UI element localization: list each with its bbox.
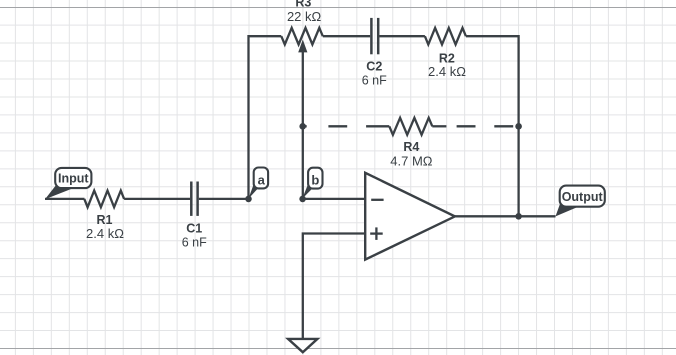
- ground: [288, 339, 317, 352]
- svg-text:C2: C2: [366, 60, 382, 74]
- wire: op-amp non-inverting input to ground column: [303, 234, 365, 339]
- node a callout: [248, 185, 257, 199]
- svg-text:a: a: [258, 172, 266, 187]
- wire: dashed segment R4 to right column: [432, 125, 446, 127]
- capacitor C2: [370, 18, 373, 54]
- resistor R4: [389, 118, 432, 135]
- potentiometer R3 zigzag: [281, 28, 323, 45]
- svg-text:4.7 MΩ: 4.7 MΩ: [390, 153, 433, 168]
- wire: R3 to C2: [323, 35, 370, 37]
- resistor R2: [425, 28, 466, 45]
- svg-text:6 nF: 6 nF: [182, 236, 207, 250]
- wire: op-amp output to Output label: [455, 215, 556, 217]
- svg-text:R1: R1: [97, 213, 113, 227]
- wire: C2 to R2: [379, 35, 425, 37]
- Input label callout: [45, 185, 73, 200]
- junction: output wire and right column: [515, 213, 522, 220]
- junction: right column and R4 dashed wire: [515, 123, 522, 130]
- wire: R2 to top-right corner down to output row: [466, 36, 519, 216]
- node b junction: [299, 196, 306, 203]
- junction: wiper line and R4 dashed wire: [299, 123, 306, 130]
- op-amp triangle: [365, 173, 455, 260]
- resistor R1: [84, 191, 124, 208]
- wire: dashed segment node to R4 (left): [303, 125, 307, 127]
- wire: wiper down to node b: [302, 50, 304, 199]
- wire: input to R1: [45, 198, 85, 200]
- node b callout: [302, 185, 312, 199]
- wire: R1 to C1: [124, 198, 190, 200]
- svg-text:R4: R4: [403, 140, 419, 154]
- svg-text:b: b: [311, 172, 319, 187]
- wire: node b to op-amp inverting input: [302, 198, 365, 200]
- svg-text:2.4 kΩ: 2.4 kΩ: [428, 64, 466, 79]
- wire: C1 to node a: [199, 198, 249, 200]
- op-amp non-inverting input plus sign: [370, 232, 383, 234]
- svg-text:6 nF: 6 nF: [362, 74, 387, 88]
- svg-text:22 kΩ: 22 kΩ: [287, 9, 322, 24]
- node a junction: [245, 196, 252, 203]
- svg-text:Input: Input: [58, 172, 89, 186]
- potentiometer R3 wiper arrow: [298, 40, 307, 53]
- capacitor C1: [190, 182, 193, 216]
- wire: node a up to top-left corner: [249, 36, 282, 199]
- svg-text:C1: C1: [186, 222, 202, 236]
- svg-text:2.4 kΩ: 2.4 kΩ: [86, 226, 124, 241]
- Output label callout: [556, 203, 579, 217]
- op-amp inverting input minus sign: [371, 199, 383, 201]
- svg-text:Output: Output: [562, 190, 604, 204]
